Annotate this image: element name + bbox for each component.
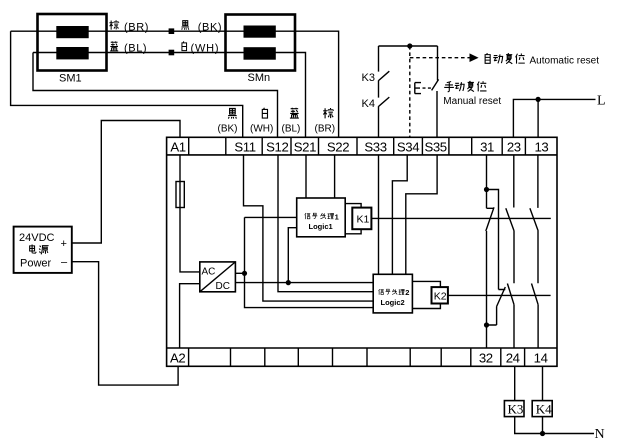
relay coil K4	[532, 401, 552, 417]
arrow automatic reset	[470, 53, 479, 62]
wire S22 to Logic1	[334, 155, 336, 198]
contact path 31-32 upper NC	[486, 155, 499, 325]
ACDC converter box	[200, 262, 236, 292]
wire A2 to ACDC	[180, 284, 200, 348]
dashed wire to S34	[409, 46, 411, 137]
junction dot L line	[536, 97, 541, 102]
svg-text:S22: S22	[327, 139, 349, 154]
top strip dividers	[189, 137, 526, 155]
svg-text:Logic2: Logic2	[381, 298, 405, 307]
wire: S12 loop (left inner)	[33, 53, 278, 138]
relay K1 coil	[345, 204, 361, 234]
terminal labels bottom row	[170, 350, 548, 365]
svg-text:S34: S34	[397, 139, 419, 154]
ACDC output rail to Logic1 and Logic2	[235, 272, 244, 274]
svg-text:K3: K3	[362, 72, 375, 84]
svg-text:(BR): (BR)	[315, 124, 336, 135]
svg-text:+: +	[61, 238, 67, 250]
wire 13 to L	[537, 99, 539, 137]
svg-text:SM1: SM1	[59, 73, 82, 85]
label 棕 (BR) top wire	[109, 20, 118, 29]
svg-text:K4: K4	[536, 402, 552, 417]
svg-text:(BL): (BL)	[282, 124, 301, 135]
svg-text:24VDC: 24VDC	[19, 232, 55, 244]
wire S34 to Logic2	[392, 155, 407, 274]
svg-text:Logic1: Logic1	[309, 222, 333, 231]
svg-text:K2: K2	[434, 291, 447, 303]
power supply box 24VDC	[14, 227, 72, 273]
SMn magnet bar top	[244, 26, 276, 38]
svg-text:Manual reset: Manual reset	[443, 96, 501, 107]
K2 linkage line	[448, 294, 551, 296]
junction dot dashed branch	[407, 43, 412, 48]
junction dot N	[540, 431, 545, 436]
riser to Logic1 lower input	[288, 228, 296, 283]
svg-text:(BK): (BK)	[218, 124, 238, 135]
svg-text:AC: AC	[202, 267, 216, 278]
svg-text:K1: K1	[357, 214, 370, 226]
contact path 13-14 upper NO	[530, 155, 538, 348]
bottom terminal strip top line	[167, 347, 557, 349]
label 手动复位 Manual reset	[444, 81, 454, 91]
svg-text:31: 31	[480, 139, 494, 154]
N line	[515, 417, 594, 434]
SMn magnet bar bottom	[244, 47, 276, 60]
Logic1 box	[297, 198, 346, 237]
svg-text:S33: S33	[364, 139, 386, 154]
junction dot 31 branch	[484, 187, 489, 192]
svg-text:K4: K4	[362, 98, 375, 110]
svg-text:A1: A1	[170, 139, 185, 154]
dashed wire automatic reset	[410, 57, 470, 59]
junction dot 32 merge	[484, 322, 489, 327]
wire power - to A2	[72, 262, 178, 385]
svg-text:S11: S11	[234, 139, 255, 154]
label 蓝 (BL) bottom wire	[110, 41, 118, 50]
svg-text:N: N	[595, 427, 605, 442]
Logic2 box	[373, 274, 412, 313]
dashes E to contact	[423, 87, 432, 89]
wire: S11 loop (left outer)	[11, 31, 243, 137]
svg-text:DC: DC	[216, 281, 230, 292]
wire: top sensor line BR/BK from left loop to S22 drop	[11, 31, 339, 137]
manual reset contact	[432, 46, 439, 137]
wire S11 to Logic2	[244, 155, 374, 301]
junction square top wire	[169, 28, 175, 34]
bottom strip dividers	[189, 348, 525, 366]
svg-text:–: –	[61, 257, 68, 269]
contact path 23-24 upper NO	[506, 155, 514, 348]
wire S12 to Logic2	[278, 155, 373, 292]
svg-text:A2: A2	[170, 350, 185, 365]
contact K3	[379, 46, 390, 98]
wire S21 to Logic1	[305, 155, 307, 198]
label 黑 (BK) top wire	[181, 21, 189, 30]
svg-text:23: 23	[507, 139, 521, 154]
relay coil K3	[504, 401, 524, 417]
svg-text:1: 1	[335, 212, 339, 221]
wire power + to A1	[72, 121, 180, 244]
K1 linkage line	[371, 217, 550, 219]
svg-text:S21: S21	[294, 139, 316, 154]
top terminal strip bottom line	[167, 154, 557, 156]
contact K4	[379, 97, 390, 137]
svg-text:(BR): (BR)	[124, 21, 149, 33]
sensor module SM1 box	[38, 14, 107, 71]
SM1 magnet bar top	[56, 26, 88, 38]
svg-text:2: 2	[405, 288, 409, 297]
contact path 31-32 lower NC	[487, 287, 506, 348]
wire S33 to Logic2	[378, 155, 380, 274]
svg-text:K3: K3	[508, 402, 524, 417]
svg-text:13: 13	[534, 139, 548, 154]
wire 14 to K4 coil	[542, 366, 544, 400]
fuse F1	[176, 182, 184, 208]
svg-text:SMn: SMn	[248, 72, 271, 84]
label 自动复位 Automatic reset	[485, 53, 490, 63]
sensor module SMn box	[226, 15, 296, 71]
svg-text:(WH): (WH)	[250, 124, 273, 135]
terminal labels top row	[170, 139, 548, 154]
svg-text:24: 24	[506, 350, 520, 365]
reset circuit top bar	[379, 45, 438, 47]
svg-text:(BK): (BK)	[198, 21, 222, 33]
svg-text:S12: S12	[266, 139, 288, 154]
wire 24 to K3 coil	[514, 366, 516, 400]
svg-text:14: 14	[534, 350, 548, 365]
manual reset button E actuator	[415, 83, 421, 94]
relay K2 coil	[412, 281, 440, 308]
L line	[513, 99, 595, 137]
wire A1 to ACDC with fuse	[180, 155, 200, 272]
svg-text:(WH): (WH)	[191, 43, 220, 55]
svg-text:S35: S35	[424, 139, 446, 154]
svg-text:(BL): (BL)	[124, 43, 147, 55]
svg-text:32: 32	[479, 350, 493, 365]
wire S35 to Logic2	[406, 155, 437, 274]
main relay box outline	[167, 137, 557, 366]
svg-text:Automatic reset: Automatic reset	[530, 56, 600, 67]
wire: bottom sensor line BL/WH to S21 drop	[33, 53, 306, 138]
svg-text:L: L	[597, 94, 606, 109]
junction square bottom wire	[169, 50, 175, 56]
label 白 (WH) bottom wire	[182, 41, 187, 50]
svg-text:Power: Power	[20, 258, 52, 270]
labels above terminals 黑(BK) 白(WH) 蓝(BL) 棕(BR)	[228, 108, 236, 118]
SM1 magnet bar bottom	[56, 47, 88, 59]
ACDC output 2 to Logic2	[235, 282, 373, 284]
